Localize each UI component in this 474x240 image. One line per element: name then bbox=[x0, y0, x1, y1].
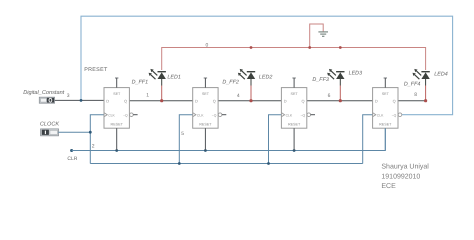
LED2 symbol bbox=[238, 69, 255, 86]
svg-text:D_FF3: D_FF3 bbox=[312, 77, 328, 83]
svg-text:Q: Q bbox=[213, 98, 216, 103]
wire: CLR bus along bottom to FF RESET pins bbox=[72, 128, 386, 150]
D_FF4 RESET stub pin to CLR bus bbox=[384, 128, 386, 150]
D_FF3 SET stub pin bbox=[292, 78, 295, 88]
junction on bus at ground riser bbox=[308, 46, 311, 49]
wire: Q1 output net 1 bbox=[129, 100, 192, 102]
wire: LED4 anode down to Q4 net bbox=[425, 86, 427, 101]
svg-text:LED2: LED2 bbox=[259, 75, 273, 81]
wire: ground bus net 0 across LED cathodes bbox=[162, 48, 426, 71]
svg-text:6: 6 bbox=[328, 93, 331, 99]
svg-text:D_FF2: D_FF2 bbox=[222, 80, 238, 86]
D_FF3 ~Q unconnected stub bbox=[311, 114, 315, 116]
flip-flop D_FF1 body bbox=[104, 88, 129, 129]
junction: LED4 on Q4 net bbox=[424, 99, 427, 102]
svg-text:1: 1 bbox=[146, 92, 149, 98]
svg-text:SET: SET bbox=[291, 92, 299, 96]
wire: constant output to D1 (net 3) bbox=[55, 99, 104, 101]
svg-text:CLK: CLK bbox=[197, 113, 204, 117]
junction: CLR bus at D_FF3 RESET bbox=[293, 149, 296, 152]
D_FF4 ~Q bubble bbox=[398, 113, 402, 117]
svg-text:4: 4 bbox=[237, 93, 240, 99]
svg-text:CLOCK: CLOCK bbox=[40, 122, 60, 128]
wire: clock bus net 5 along bottom bbox=[90, 163, 362, 165]
LED3 symbol bbox=[327, 69, 344, 86]
svg-text:D_FF4: D_FF4 bbox=[404, 81, 420, 87]
svg-text:Digital_Constant: Digital_Constant bbox=[23, 89, 64, 96]
svg-text:Q: Q bbox=[124, 98, 127, 103]
D_FF1 RESET stub pin to CLR bus bbox=[116, 128, 118, 150]
svg-text:LED1: LED1 bbox=[167, 75, 181, 81]
junction: clock bus at riser FF2 bbox=[178, 162, 181, 165]
svg-text:1910992010: 1910992010 bbox=[381, 173, 420, 180]
junction: clock bus at riser FF3 bbox=[267, 162, 270, 165]
junction: feedback joins D1 wire bbox=[80, 99, 83, 102]
wire: CLK riser to D_FF4 bbox=[363, 115, 373, 164]
svg-text:Q: Q bbox=[301, 98, 304, 103]
junction: LED2 on Q2 net bbox=[249, 99, 252, 102]
D_FF2 ~Q bubble bbox=[218, 113, 222, 117]
svg-text:Q: Q bbox=[393, 98, 396, 103]
svg-text:SET: SET bbox=[382, 92, 390, 96]
svg-text:CLK: CLK bbox=[377, 113, 384, 117]
wire: riser from bus to ground symbol bbox=[310, 24, 324, 48]
svg-text:D: D bbox=[195, 98, 198, 103]
svg-text:D: D bbox=[284, 98, 287, 103]
svg-text:LED3: LED3 bbox=[349, 71, 363, 77]
wire: Q3 output net 6 bbox=[307, 100, 373, 102]
junction: clock node bbox=[89, 131, 92, 134]
ground bbox=[318, 32, 328, 36]
LED4 symbol bbox=[413, 69, 430, 86]
svg-text:CLK: CLK bbox=[108, 113, 115, 117]
text: author name block bbox=[381, 163, 429, 191]
svg-text:3: 3 bbox=[67, 93, 70, 99]
junction: CLR bus at D_FF1 RESET bbox=[115, 149, 118, 152]
wire: LED3 anode down to Q3 net bbox=[339, 86, 341, 101]
D_FF4 SET stub pin bbox=[384, 78, 387, 88]
wire: CLK riser to D_FF3 bbox=[269, 115, 282, 164]
flip-flop D_FF3 body bbox=[281, 88, 306, 129]
node CLR terminal dot bbox=[70, 149, 73, 152]
svg-text:8: 8 bbox=[414, 92, 417, 98]
flip-flop D_FF4 body bbox=[373, 88, 398, 129]
svg-text:ECE: ECE bbox=[381, 183, 396, 190]
wire: Q4 output net 8 bbox=[398, 100, 426, 102]
D_FF1 ~Q bubble bbox=[130, 113, 134, 117]
svg-text:Shaurya Uniyal: Shaurya Uniyal bbox=[381, 163, 429, 171]
svg-text:2: 2 bbox=[92, 143, 95, 149]
svg-text:0: 0 bbox=[206, 42, 209, 48]
wire: ~Q4 feedback net from FF4 ~Q up over the top to D1 node bbox=[81, 16, 453, 115]
svg-text:LED4: LED4 bbox=[434, 71, 448, 77]
D_FF1 ~Q unconnected stub bbox=[133, 114, 137, 116]
svg-text:5: 5 bbox=[181, 131, 184, 137]
clock source CLOCK value 1 bbox=[41, 129, 59, 136]
flip-flop D_FF2 body bbox=[193, 88, 218, 129]
junction on bus at LED3 bbox=[339, 46, 342, 49]
wire: LED1 anode down to Q1 net bbox=[161, 86, 163, 101]
junction on bus at LED2 bbox=[250, 46, 253, 49]
svg-text:RESET: RESET bbox=[288, 123, 301, 127]
wire: Q2 output net 4 bbox=[218, 100, 281, 102]
wire: clock riser to FF1 CLK and down to clock bus bbox=[90, 115, 104, 164]
svg-text:D: D bbox=[375, 98, 378, 103]
D_FF3 RESET stub pin to CLR bus bbox=[293, 128, 295, 150]
svg-text:CLR: CLR bbox=[67, 156, 77, 162]
D_FF2 RESET stub pin to CLR bus bbox=[204, 128, 206, 150]
wire: LED2 anode down to Q2 net bbox=[250, 86, 252, 101]
junction: CLR bus at D_FF2 RESET bbox=[204, 149, 207, 152]
wire: clock output to clock node bbox=[59, 131, 91, 133]
svg-text:SET: SET bbox=[202, 92, 210, 96]
D_FF3 ~Q bubble bbox=[307, 113, 311, 117]
svg-text:SET: SET bbox=[113, 92, 121, 96]
svg-text:~Q: ~Q bbox=[300, 113, 305, 117]
svg-text:~Q: ~Q bbox=[392, 113, 397, 117]
svg-text:RESET: RESET bbox=[111, 123, 124, 127]
D_FF2 ~Q unconnected stub bbox=[222, 114, 226, 116]
D_FF1 SET stub pin bbox=[115, 78, 118, 88]
svg-text:RESET: RESET bbox=[379, 123, 392, 127]
junction: LED3 on Q3 net bbox=[339, 99, 342, 102]
LED1 symbol bbox=[149, 69, 166, 86]
D_FF2 SET stub pin bbox=[204, 78, 207, 88]
svg-text:~Q: ~Q bbox=[212, 113, 217, 117]
svg-text:D: D bbox=[106, 98, 109, 103]
svg-text:RESET: RESET bbox=[199, 123, 212, 127]
digital constant source Digital_Constant value 0 bbox=[39, 97, 54, 103]
svg-text:PRESET: PRESET bbox=[84, 67, 108, 73]
svg-text:CLK: CLK bbox=[286, 113, 293, 117]
svg-text:~Q: ~Q bbox=[123, 113, 128, 117]
wire: CLK riser to D_FF2 bbox=[179, 115, 192, 164]
svg-text:D_FF1: D_FF1 bbox=[132, 80, 148, 86]
junction: LED1 on Q1 net bbox=[160, 99, 163, 102]
